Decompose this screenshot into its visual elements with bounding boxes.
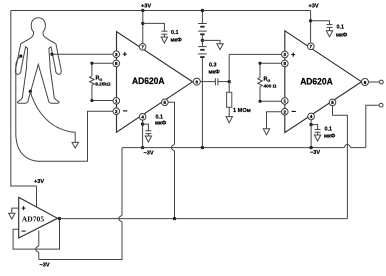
op-amp U3 AD705 triangle bbox=[19, 197, 58, 238]
wire U3 feedback bbox=[13, 219, 59, 250]
node -3V rail stage2 junction bbox=[309, 146, 312, 149]
node stage2 +3V corner bbox=[309, 4, 319, 10]
node -3V label AD705 bbox=[40, 263, 50, 269]
node C3 output junction bbox=[228, 80, 231, 83]
svg-text:мкФ: мкФ bbox=[336, 33, 348, 39]
node +3V label stage1 bbox=[141, 4, 151, 10]
pin 7 U1 bbox=[139, 44, 146, 51]
node R1 top corner bbox=[90, 62, 93, 65]
label C4 value bbox=[336, 25, 348, 39]
label R2 bbox=[264, 77, 277, 89]
svg-text:мкФ: мкФ bbox=[155, 121, 167, 127]
svg-text:AD620A: AD620A bbox=[132, 76, 165, 87]
pin 7 U2 bbox=[308, 43, 315, 50]
pin 4 U2 bbox=[308, 113, 315, 120]
node reference stage1 junction bbox=[173, 217, 176, 220]
svg-text:мкФ: мкФ bbox=[209, 70, 221, 76]
svg-text:−: − bbox=[123, 107, 128, 116]
label C2 value bbox=[155, 115, 167, 127]
svg-text:AD705: AD705 bbox=[22, 215, 45, 224]
node U1 pin4 cap branch bbox=[141, 122, 144, 125]
svg-text:0.1: 0.1 bbox=[171, 30, 179, 36]
node terminal J2 bbox=[379, 103, 383, 107]
pin 3 U2 bbox=[282, 50, 297, 59]
wire right arm to U1 pin3 bbox=[52, 53, 113, 55]
pin 4 U1 bbox=[139, 114, 146, 121]
wire +3V feed to AD705 bbox=[11, 11, 37, 187]
battery GB1 cell 2 bbox=[198, 40, 207, 147]
node electrode right arm bbox=[50, 53, 53, 56]
wire U1 pin6 output bbox=[200, 81, 215, 83]
svg-text:+3V: +3V bbox=[34, 179, 44, 185]
svg-text:0.3: 0.3 bbox=[209, 63, 217, 69]
wire left arm loop to U1 pin2 bbox=[16, 56, 113, 161]
label R3 bbox=[233, 108, 251, 114]
label C3 value bbox=[209, 63, 221, 76]
wire -3V rail bbox=[122, 144, 366, 147]
wire +3V top rail bbox=[11, 10, 311, 12]
wire U2 pin2 to ground bbox=[267, 112, 282, 129]
wire leg electrode to ground bbox=[30, 91, 75, 142]
svg-text:мкФ: мкФ bbox=[324, 134, 336, 140]
wire stage2 V+ drop bbox=[310, 11, 312, 44]
pin 5 U1 bbox=[162, 99, 169, 106]
pin 8 U2 bbox=[282, 60, 289, 67]
svg-text:AD620A: AD620A bbox=[300, 76, 333, 87]
node R2 top corner bbox=[258, 62, 261, 65]
svg-text:+3V: +3V bbox=[309, 4, 319, 10]
ground battery tap bbox=[217, 44, 223, 50]
pin 3 U1 bbox=[113, 50, 128, 59]
svg-text:−: − bbox=[291, 107, 296, 116]
node -3V rail stage1 junction bbox=[141, 146, 144, 149]
battery GB1 cell 1 bbox=[198, 11, 207, 41]
wire junction to U2 pin3 bbox=[229, 54, 281, 81]
op-amp U2 AD620A stage2 triangle bbox=[285, 31, 362, 133]
node R2 bottom corner bbox=[258, 100, 261, 103]
svg-text:+3V: +3V bbox=[141, 4, 151, 10]
svg-text:−3V: −3V bbox=[144, 151, 154, 157]
pin 2 U1 bbox=[113, 107, 128, 116]
capacitor C2 0.1uF stage1 bottom bbox=[145, 131, 151, 136]
wire U2 pin4 cap branch bbox=[311, 125, 318, 130]
node U3 output junction bbox=[58, 217, 61, 220]
pin 8 U1 bbox=[113, 60, 120, 67]
node -3V rail battery junction bbox=[201, 146, 204, 149]
svg-text:+: + bbox=[123, 50, 128, 59]
svg-text:−3V: −3V bbox=[310, 150, 320, 156]
ground C1 bbox=[161, 37, 167, 43]
wire U2 pin5 to reference bbox=[333, 106, 348, 219]
label R1 bbox=[95, 76, 111, 87]
svg-text:0.1: 0.1 bbox=[325, 127, 333, 133]
wire U1 pin4 drop bbox=[142, 120, 144, 148]
wire battery tap to ground bbox=[202, 40, 220, 43]
capacitor C5 0.1uF stage2 bottom bbox=[315, 129, 321, 135]
capacitor C3 0.3uF coupling bbox=[215, 78, 229, 85]
wire stage1 V+ drop bbox=[142, 11, 144, 44]
node battery top junction bbox=[201, 9, 204, 12]
ground C5 bbox=[314, 135, 320, 141]
pin 1 U1 bbox=[113, 98, 120, 105]
node -3V label stage1 bbox=[144, 151, 154, 157]
svg-text:мкФ: мкФ bbox=[171, 38, 183, 44]
svg-text:+: + bbox=[22, 205, 26, 212]
wire U3 +in bbox=[12, 208, 19, 213]
ground U3 +in bbox=[9, 213, 15, 219]
svg-text:G: G bbox=[267, 79, 270, 83]
node +3V label AD705 bbox=[34, 179, 44, 207]
resistor R2 RG 400 bbox=[258, 63, 282, 101]
node stage1 +3V rail junction bbox=[141, 9, 144, 12]
label C1 value bbox=[171, 30, 183, 44]
pin 2 U2 bbox=[282, 107, 297, 116]
node stage1 bypass branch junction bbox=[141, 22, 144, 25]
patient figure body bbox=[15, 18, 61, 104]
node electrode leg bbox=[29, 90, 32, 93]
node R1 bottom corner bbox=[90, 99, 93, 102]
wire -3V rail to terminal J2 bbox=[366, 105, 380, 147]
svg-text:+: + bbox=[291, 50, 296, 59]
svg-text:−3V: −3V bbox=[40, 263, 50, 269]
svg-text:400 Ω: 400 Ω bbox=[264, 84, 277, 89]
pin 1 U2 bbox=[282, 98, 289, 105]
node output terminal J1 bbox=[379, 80, 383, 84]
node electrode left arm bbox=[19, 55, 22, 58]
capacitor C1 0.1uF stage1 top bbox=[161, 31, 167, 37]
wire U3 output reference line bbox=[60, 218, 348, 220]
resistor R1 RG 8.25k bbox=[90, 63, 113, 100]
ground leg bbox=[72, 142, 78, 148]
label C5 value bbox=[324, 127, 336, 140]
svg-text:−: − bbox=[22, 227, 27, 236]
ground R3 bbox=[226, 117, 232, 123]
node -3V label stage2 bbox=[310, 150, 320, 156]
wire U2 pin6 to output terminal bbox=[369, 81, 380, 83]
wire U2 pin4 drop bbox=[310, 120, 312, 148]
wire U1 pin4 cap branch bbox=[143, 124, 149, 131]
ground U2 pin2 bbox=[263, 129, 269, 135]
wire U3 V- with hop bbox=[36, 231, 39, 260]
node battery mid tap bbox=[201, 39, 204, 42]
pin 6 U2 bbox=[362, 79, 369, 86]
wire stage2 bypass branch bbox=[311, 21, 330, 25]
pin 5 U2 bbox=[329, 99, 336, 106]
svg-text:8.25kΩ: 8.25kΩ bbox=[95, 82, 111, 87]
svg-text:0.1: 0.1 bbox=[337, 25, 345, 31]
capacitor C4 0.1uF stage2 top bbox=[327, 25, 333, 31]
svg-text:1 МОм: 1 МОм bbox=[233, 108, 251, 114]
ground C4 bbox=[326, 31, 332, 37]
wire stage1 bypass branch bbox=[143, 23, 165, 31]
wire U1 pin5 to reference bbox=[168, 102, 174, 218]
node stage2 bypass branch junction bbox=[309, 19, 312, 22]
op-amp U1 AD620A stage1 triangle bbox=[117, 32, 193, 133]
node U2 pin4 cap branch bbox=[309, 123, 312, 126]
wire -3V bottom line bbox=[39, 148, 122, 260]
pin 6 U1 bbox=[193, 78, 200, 85]
ground C2 bbox=[145, 136, 151, 142]
resistor R3 1MOhm bbox=[227, 82, 232, 117]
